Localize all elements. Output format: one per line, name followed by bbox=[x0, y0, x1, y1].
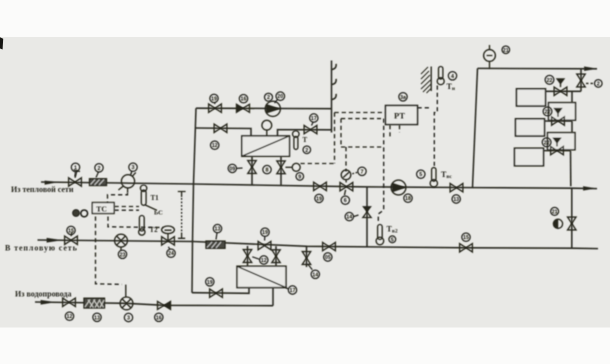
wire water riser to heater 2 bbox=[272, 288, 274, 306]
label circle radiator valve 2 bbox=[543, 107, 552, 116]
label circle strainer return bbox=[213, 224, 221, 239]
thermometer T1 bbox=[140, 185, 146, 191]
dotted sensor line bbox=[181, 198, 183, 232]
svg-text:Из тепловой сети: Из тепловой сети bbox=[11, 185, 74, 194]
svg-text:3: 3 bbox=[127, 316, 130, 322]
svg-text:14: 14 bbox=[312, 272, 318, 278]
impulse loop H2 bbox=[341, 118, 381, 120]
valve top branch bbox=[209, 104, 222, 112]
impulse RT bottom stub 2 bbox=[399, 125, 401, 133]
label circle heater1 drain right bbox=[263, 165, 271, 173]
water meter bbox=[120, 297, 133, 310]
wire heater2 top stub right bbox=[275, 246, 277, 266]
svg-text:13: 13 bbox=[453, 197, 459, 203]
label circle Tv2 bbox=[389, 236, 396, 243]
check valve top branch bbox=[237, 104, 244, 112]
wire heater1 inlet row bbox=[196, 128, 252, 137]
wire cold water pipe bbox=[35, 302, 273, 306]
label circle heater2 bottom valve bbox=[206, 278, 214, 286]
label circle valve return right-middle bbox=[324, 253, 332, 261]
wire heating system left riser bbox=[473, 68, 478, 187]
svg-text:17: 17 bbox=[311, 116, 317, 122]
impulse to three-way actuator bbox=[345, 147, 347, 171]
valve heater1 drain left bbox=[248, 161, 256, 174]
svg-text:РТ: РТ bbox=[394, 111, 405, 121]
svg-text:2: 2 bbox=[98, 166, 101, 172]
svg-text:3: 3 bbox=[132, 165, 135, 171]
valve return inlet bbox=[65, 236, 78, 244]
svg-text:23: 23 bbox=[120, 252, 126, 258]
label circle heater1 thermometer bbox=[303, 146, 311, 154]
impulse loop V1 bbox=[334, 113, 336, 164]
impulse Tn to RT bbox=[434, 86, 437, 167]
svg-text:2: 2 bbox=[267, 95, 270, 101]
impulse loop V2 bbox=[340, 119, 342, 147]
pump top branch bbox=[265, 101, 280, 116]
label circle Tn bbox=[448, 72, 456, 80]
impulse TC right upper bbox=[115, 206, 140, 208]
svg-text:1: 1 bbox=[74, 165, 77, 171]
wire supply inlet arrow bbox=[45, 181, 57, 184]
svg-text:Т1: Т1 bbox=[151, 194, 160, 202]
valve heating bypass top right bbox=[577, 74, 585, 87]
wire heating top line bbox=[478, 67, 598, 69]
handle return inlet valve bbox=[71, 232, 72, 236]
label circle Tvs bbox=[417, 170, 425, 178]
wire open vent pipe bbox=[331, 61, 333, 133]
impulse loop H3 bbox=[341, 146, 384, 148]
svg-text:8: 8 bbox=[266, 168, 269, 174]
label circle hot water instrument bbox=[551, 207, 559, 215]
svg-text:12: 12 bbox=[261, 258, 267, 264]
svg-text:14: 14 bbox=[346, 215, 352, 221]
svg-text:5: 5 bbox=[419, 172, 422, 178]
svg-text:5: 5 bbox=[391, 237, 394, 243]
vent hook 3 bbox=[332, 94, 337, 100]
label circle expansion gauge bbox=[502, 46, 510, 54]
svg-text:ЬС: ЬС bbox=[154, 210, 163, 217]
valve heater1 outlet bbox=[304, 125, 317, 133]
svg-text:Т2: Т2 bbox=[150, 226, 159, 234]
svg-text:16: 16 bbox=[156, 315, 162, 321]
label circle elevator bbox=[129, 163, 137, 175]
radiator valve 1 bbox=[554, 87, 567, 95]
label circle valve T2 bbox=[167, 247, 175, 258]
elevator mixer bbox=[121, 175, 134, 188]
wire radiator row2 bbox=[545, 120, 573, 122]
label circle strainer water bbox=[93, 313, 101, 321]
svg-text:2: 2 bbox=[597, 81, 600, 87]
svg-text:22: 22 bbox=[547, 78, 553, 84]
svg-text:21: 21 bbox=[552, 209, 558, 215]
thermometer Tv2 bbox=[378, 225, 383, 240]
svg-text:13: 13 bbox=[94, 315, 100, 321]
wire meter impulse drop bbox=[125, 285, 127, 298]
wire top bypass branch bbox=[196, 107, 332, 110]
strainer water bbox=[84, 298, 105, 308]
svg-text:3а: 3а bbox=[400, 95, 407, 101]
impulse TC right lower bbox=[115, 209, 140, 211]
impulse RT to T2 sensor bbox=[378, 119, 383, 223]
radiator 3 bbox=[515, 148, 544, 166]
thermometer Tn bbox=[439, 67, 443, 80]
impulse loop H1 bbox=[335, 112, 386, 114]
wire heater1 bottom stub left bbox=[251, 156, 253, 185]
wire radiator row3 bbox=[544, 150, 571, 152]
thermometer heater1 bulb bbox=[293, 131, 300, 138]
svg-text:18: 18 bbox=[405, 196, 411, 202]
svg-text:Т: Т bbox=[303, 136, 308, 144]
label TC bbox=[73, 210, 80, 217]
label circle control valve return bbox=[118, 250, 126, 258]
wire top-right valve riser bbox=[580, 69, 582, 92]
svg-text:22: 22 bbox=[545, 109, 551, 115]
svg-text:17: 17 bbox=[290, 288, 296, 294]
valve supply inlet bbox=[69, 178, 82, 186]
label circle heater1 inlet valve bbox=[211, 141, 219, 149]
label circle top-right valve bbox=[595, 80, 603, 88]
label circle radiator valve 3 bbox=[542, 138, 551, 147]
strainer return bbox=[206, 241, 225, 248]
radiator valve 2 bbox=[552, 117, 565, 125]
valve return far right bbox=[460, 244, 473, 252]
thermometer T1 leader bbox=[145, 205, 158, 211]
label circle check top branch bbox=[239, 95, 247, 103]
label circle heater1 instrument bbox=[296, 173, 304, 181]
svg-text:21: 21 bbox=[503, 48, 509, 54]
impulse valve top-right leader bbox=[586, 82, 594, 84]
wire three-way drop to return bbox=[366, 187, 368, 247]
valve return right-middle bbox=[323, 242, 336, 250]
radiator 2 bbox=[516, 119, 545, 136]
svg-text:19: 19 bbox=[316, 196, 322, 202]
control valve T2 with diaphragm bbox=[162, 237, 175, 245]
svg-text:19: 19 bbox=[207, 280, 213, 286]
loop box A bbox=[549, 103, 576, 121]
impulse RT right bbox=[418, 107, 430, 109]
label circle valve top branch bbox=[210, 94, 218, 104]
svg-text:4: 4 bbox=[451, 74, 454, 80]
valve heater2 inlet left bbox=[243, 250, 251, 263]
label circle check water bbox=[155, 313, 163, 321]
controller TC box bbox=[92, 203, 114, 214]
svg-text:Из водопровода: Из водопровода bbox=[15, 290, 71, 299]
instrument half-filled circle bbox=[553, 219, 562, 228]
control valve actuator bbox=[341, 170, 351, 180]
wire heating top arrow bbox=[585, 67, 596, 71]
pump circulation bbox=[391, 180, 406, 195]
sensor tap on supply bbox=[178, 192, 186, 198]
label circle check drop bbox=[345, 212, 358, 220]
svg-text:15: 15 bbox=[68, 228, 74, 234]
label circle strainer supply bbox=[95, 164, 103, 178]
svg-text:2: 2 bbox=[305, 148, 308, 154]
check valve water bbox=[158, 301, 165, 309]
svg-text:13: 13 bbox=[215, 227, 221, 233]
svg-text:19: 19 bbox=[262, 230, 268, 236]
valve before heating system bbox=[450, 184, 463, 192]
label circle valve before heating bbox=[452, 195, 460, 203]
wire heating final drop bbox=[570, 151, 572, 187]
label circle valve return middle bbox=[261, 228, 269, 241]
wire bottom connection to heater 2 bbox=[192, 288, 249, 294]
check valve on drop bbox=[363, 207, 371, 213]
impulse TC to valve T2 bbox=[108, 217, 163, 228]
wire heater2 top stub left bbox=[247, 246, 249, 266]
svg-text:7: 7 bbox=[361, 169, 364, 175]
label circle heater1 outlet valve bbox=[310, 114, 318, 126]
label circle valve supply bbox=[71, 163, 79, 176]
impulse elevator to TC bbox=[108, 193, 128, 203]
svg-text:12: 12 bbox=[67, 314, 73, 320]
label circle water meter bbox=[124, 313, 132, 321]
valve return drain bbox=[302, 252, 310, 265]
wire return arrow bbox=[47, 238, 60, 242]
radiator valve 3 bbox=[551, 146, 564, 154]
svg-text:16: 16 bbox=[241, 97, 247, 103]
wire supply pipe from heating network bbox=[41, 182, 597, 189]
svg-text:20: 20 bbox=[277, 94, 283, 100]
valve heater1 inlet bbox=[214, 124, 227, 132]
impulse RT bottom stub 1 bbox=[389, 125, 391, 139]
label circle RT bbox=[399, 93, 407, 101]
svg-text:В тепловую сеть: В тепловую сеть bbox=[5, 244, 78, 253]
wire loop A drop bbox=[571, 91, 573, 102]
radiator 1 bbox=[517, 89, 546, 106]
svg-text:6: 6 bbox=[344, 198, 347, 204]
valve handle supply inlet bbox=[73, 170, 80, 178]
impulse TC to water meter bbox=[96, 217, 123, 285]
outdoor wall hatch bbox=[421, 67, 431, 93]
label circle pump top pair bbox=[265, 92, 285, 103]
wire radiator row1 bbox=[546, 90, 582, 92]
thermometer T2 capsule bbox=[139, 216, 144, 232]
label circle radiator valve 1 bbox=[545, 75, 554, 84]
label circle valve water bbox=[65, 312, 73, 320]
svg-text:24: 24 bbox=[168, 251, 174, 257]
vent hook 1 bbox=[332, 64, 337, 70]
control valve return (circle-X) bbox=[115, 234, 128, 247]
valve heater1 drain right bbox=[277, 161, 285, 174]
label circle return drain valve bbox=[308, 264, 319, 278]
valve supply middle bbox=[314, 182, 327, 190]
strainer supply bbox=[90, 179, 107, 186]
valve water inlet bbox=[63, 298, 76, 306]
valve return middle bbox=[258, 241, 271, 249]
svg-text:22: 22 bbox=[544, 140, 550, 146]
svg-text:9: 9 bbox=[298, 174, 301, 180]
wire water inlet arrow bbox=[41, 300, 53, 304]
wire heater1 bottom stub right bbox=[280, 156, 282, 185]
gauge heater1 bbox=[262, 120, 272, 130]
label circle heater1 drain left bbox=[228, 164, 242, 172]
wire hot water drop to return bbox=[571, 188, 573, 248]
svg-text:09: 09 bbox=[229, 166, 235, 172]
loop box B bbox=[548, 133, 576, 150]
wire loop B drop bbox=[571, 121, 573, 133]
valve heater2 inlet right bbox=[272, 250, 280, 263]
label T1 sensor bbox=[158, 208, 160, 210]
regulator RT box bbox=[386, 106, 418, 125]
svg-text:05: 05 bbox=[325, 255, 331, 261]
thermometer Tvs bbox=[430, 180, 437, 187]
wire left riser bbox=[192, 108, 196, 293]
heat exchanger 2 bbox=[237, 266, 286, 287]
heat exchanger 1 bbox=[242, 136, 290, 156]
instrument near heater1 outlet bbox=[292, 163, 300, 171]
page corner mark bbox=[0, 37, 3, 49]
label circle heater2 inlet valves bbox=[252, 256, 268, 264]
valve hot water drop bbox=[568, 217, 576, 230]
impulse to heater1 instrument bbox=[301, 163, 335, 165]
label circle valve supply middle bbox=[315, 194, 323, 202]
svg-text:19: 19 bbox=[211, 96, 217, 102]
valve heater2 bottom bbox=[210, 289, 223, 297]
expansion gauge top right bbox=[484, 50, 496, 62]
sensor bottom tack bbox=[178, 233, 185, 239]
label circle valve return inlet bbox=[67, 226, 75, 234]
wire return drain stub bbox=[306, 246, 308, 267]
wire return pipe to heating network bbox=[38, 240, 599, 249]
label circle three-way actuator bbox=[352, 167, 366, 175]
svg-text:15: 15 bbox=[463, 235, 469, 241]
vent hook 2 bbox=[332, 79, 337, 85]
label circle valve return far right bbox=[462, 233, 470, 241]
wire heater1 outlet bbox=[278, 130, 332, 137]
label circle heater2 bbox=[286, 286, 297, 294]
svg-text:12: 12 bbox=[212, 143, 218, 149]
label circle three-way bottom bbox=[341, 196, 349, 204]
svg-text:ТС: ТС bbox=[96, 204, 107, 213]
wire supply outlet arrow right bbox=[584, 187, 595, 191]
control valve supply bbox=[340, 183, 353, 191]
label circle pump circulation bbox=[404, 194, 412, 202]
